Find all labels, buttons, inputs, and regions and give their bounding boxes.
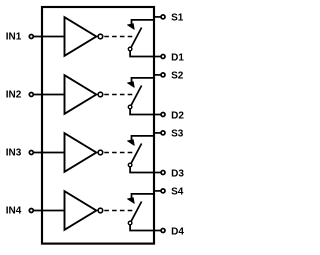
dashed control line A1 to switch SW1: [104, 36, 134, 38]
switch SW4 bottom wire (to D4): [130, 225, 154, 231]
switch SW2 contact circle: [128, 105, 132, 109]
switch SW1 blade: [131, 28, 141, 48]
inverter A3: [65, 133, 97, 172]
wire input IN2 to inverter A2: [34, 94, 65, 96]
svg-text:D1: D1: [171, 52, 184, 63]
switch SW4 arrowhead: [128, 198, 135, 204]
wire D2 stub: [154, 114, 161, 116]
inverter A4 output bubble: [98, 208, 103, 213]
wire input IN1 to inverter A1: [34, 36, 65, 38]
svg-text:D3: D3: [171, 168, 184, 179]
switch SW1 contact circle: [128, 47, 132, 51]
wire S4 stub: [154, 190, 161, 192]
svg-text:D2: D2: [171, 110, 184, 121]
terminal IN3: [29, 151, 33, 155]
wire S2 stub: [154, 74, 161, 76]
terminal IN2: [29, 93, 33, 97]
wire D3 stub: [154, 172, 161, 174]
switch SW1 arrowhead: [128, 24, 135, 30]
terminal IN4: [29, 209, 33, 213]
terminal S4: [161, 189, 165, 193]
svg-text:D4: D4: [171, 226, 184, 237]
dashed control line A4 to switch SW4: [104, 210, 134, 212]
terminal S3: [161, 131, 165, 135]
svg-text:IN4: IN4: [6, 206, 22, 217]
svg-text:IN3: IN3: [6, 148, 22, 159]
switch SW4 contact circle: [128, 221, 132, 225]
wire D4 stub: [154, 230, 161, 232]
svg-text:S2: S2: [171, 71, 184, 82]
wire D1 stub: [154, 56, 161, 58]
terminal D4: [161, 229, 165, 233]
dashed control line A3 to switch SW3: [104, 152, 134, 154]
switch SW4 blade: [131, 202, 141, 222]
wire input IN3 to inverter A3: [34, 152, 65, 154]
inverter A1: [65, 17, 97, 56]
inverter A3 output bubble: [98, 150, 103, 155]
svg-text:IN1: IN1: [6, 32, 22, 43]
switch SW4 top branch wire (to S4): [132, 194, 155, 199]
terminal S2: [161, 73, 165, 77]
terminal IN1: [29, 35, 33, 39]
switch SW3 contact circle: [128, 163, 132, 167]
svg-text:S3: S3: [171, 129, 184, 140]
dashed control line A2 to switch SW2: [104, 94, 134, 96]
svg-text:S4: S4: [171, 187, 184, 198]
switch SW3 top branch wire (to S3): [132, 136, 155, 141]
device outline box: [42, 7, 154, 244]
terminal D3: [161, 171, 165, 175]
inverter A1 output bubble: [98, 34, 103, 39]
svg-text:S1: S1: [171, 13, 184, 24]
terminal D1: [161, 55, 165, 59]
wire S1 stub: [154, 16, 161, 18]
inverter A2 output bubble: [98, 92, 103, 97]
switch SW2 blade: [131, 86, 141, 106]
switch SW3 bottom wire (to D3): [130, 167, 154, 173]
inverter A2: [65, 75, 97, 114]
terminal D2: [161, 113, 165, 117]
switch SW1 top branch wire (to S1): [132, 20, 155, 25]
switch SW1 bottom wire (to D1): [130, 51, 154, 57]
inverter A4: [65, 191, 97, 230]
wire S3 stub: [154, 132, 161, 134]
svg-text:IN2: IN2: [6, 90, 22, 101]
switch SW3 arrowhead: [128, 140, 135, 146]
terminal S1: [161, 15, 165, 19]
switch SW3 blade: [131, 144, 141, 164]
switch SW2 bottom wire (to D2): [130, 109, 154, 115]
switch SW2 top branch wire (to S2): [132, 78, 155, 83]
switch SW2 arrowhead: [128, 82, 135, 88]
wire input IN4 to inverter A4: [34, 210, 65, 212]
